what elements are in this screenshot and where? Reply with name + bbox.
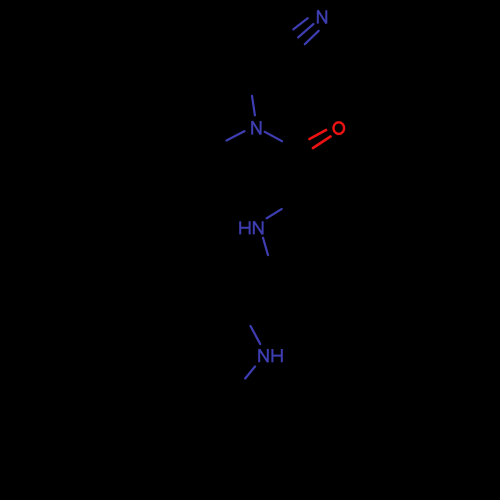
bond NH-CH3 (blue half, down-left) <box>245 367 255 379</box>
atom label HN: H glyph (amine N1'-H) <box>240 221 249 234</box>
nitrile triple bond line 3 (blue half) <box>305 31 319 44</box>
bond HN-C2' (blue half, up-right) <box>267 209 282 218</box>
bond HN-C5' (blue half, down) <box>263 238 268 255</box>
nitrile triple bond line 2 (blue half) <box>298 24 313 37</box>
C=O double bond lower line (red half) <box>313 137 331 149</box>
bond N1-C(=O) amide (blue half, down-right) <box>265 132 282 141</box>
atom label O (carbonyl oxygen) <box>334 122 345 134</box>
atom label NH: N glyph (methylamino nitrogen) <box>259 349 268 362</box>
atom label N (amide ring nitrogen N1) <box>252 121 260 135</box>
atom label NH: H glyph <box>272 349 281 362</box>
C=O double bond upper line (red half) <box>310 130 327 139</box>
bond N1-C2 of cyanopyrrolidine (blue half, up) <box>252 96 255 116</box>
atom label N (nitrile nitrogen) <box>318 10 327 23</box>
nitrile triple bond C#N, line 1 (blue half) <box>293 18 307 29</box>
bond NH-CH2 (blue half, up) <box>251 326 261 344</box>
bond N1-C5 of cyanopyrrolidine (blue half, down-left) <box>227 131 245 140</box>
atom label HN: N glyph (amine nitrogen N1') <box>254 221 263 234</box>
wire: carbon skeleton (black bond halves, invisible on background) <box>170 29 342 390</box>
